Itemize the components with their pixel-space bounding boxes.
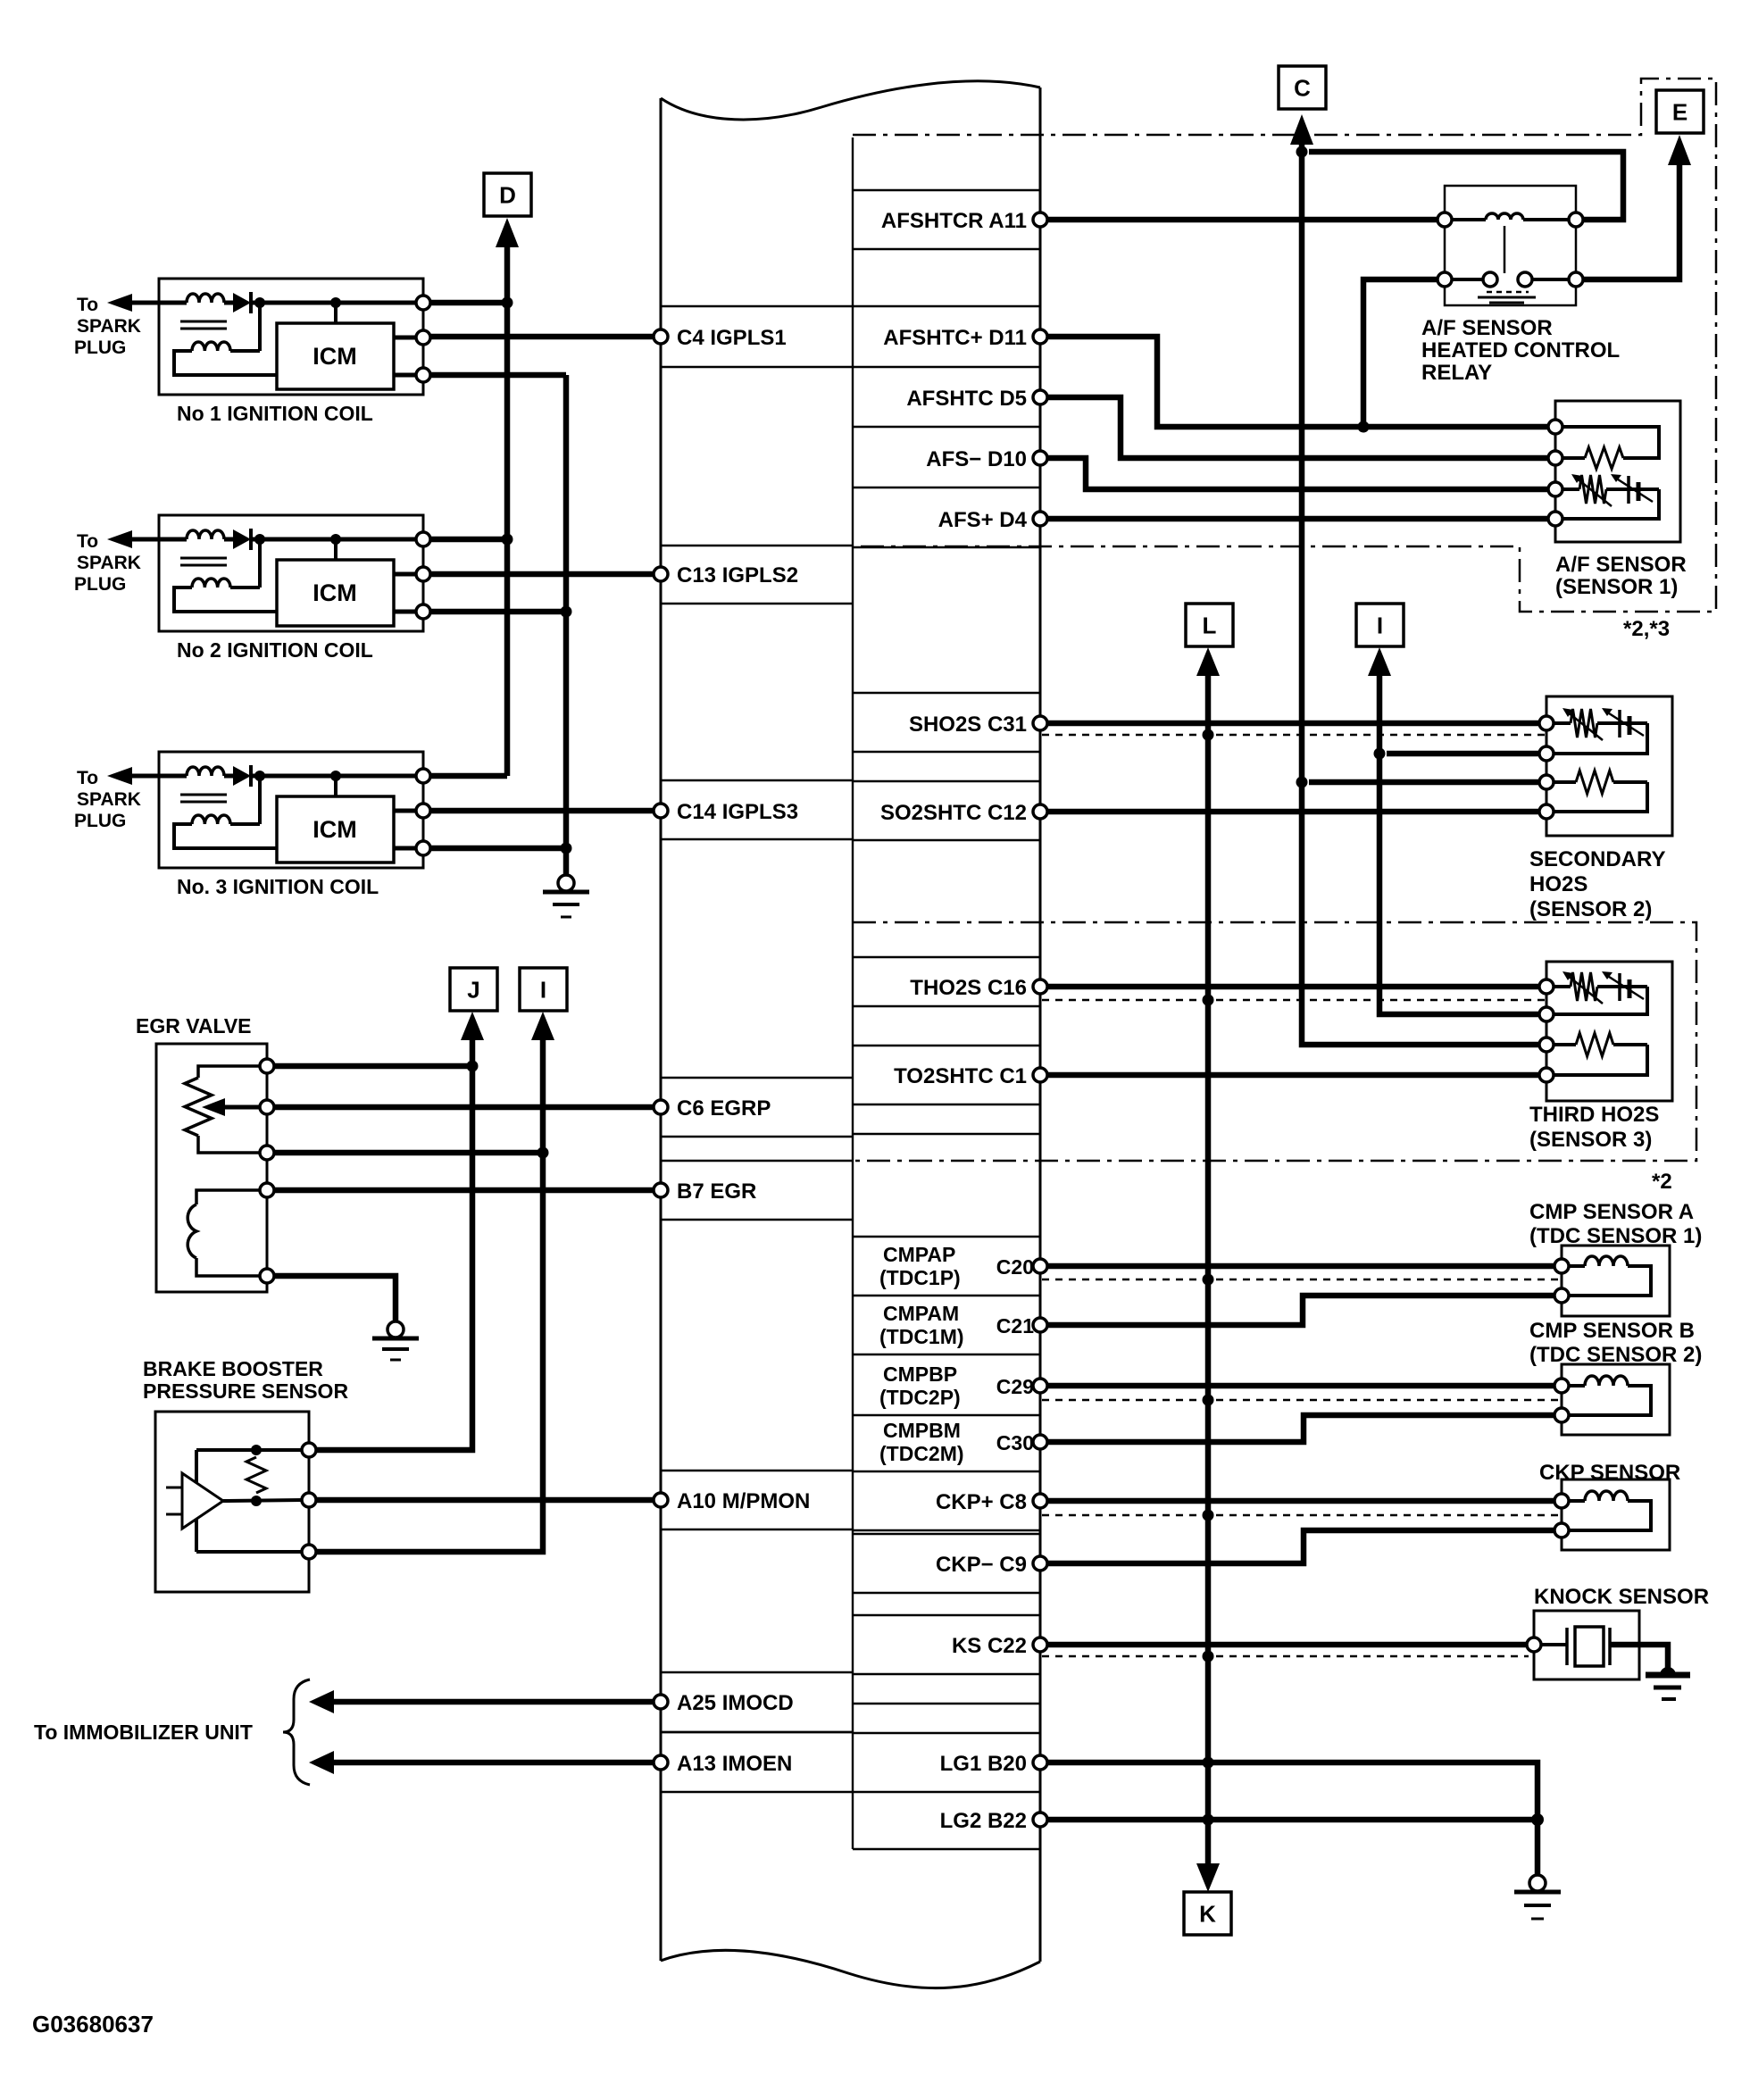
svg-text:I: I — [1377, 612, 1383, 639]
svg-text:EGR VALVE: EGR VALVE — [136, 1014, 252, 1037]
svg-text:C29: C29 — [996, 1375, 1034, 1398]
svg-text:CMP SENSOR B: CMP SENSOR B — [1529, 1319, 1695, 1343]
svg-text:CMPBP: CMPBP — [883, 1362, 957, 1386]
svg-text:KS C22: KS C22 — [952, 1634, 1027, 1658]
svg-text:G03680637: G03680637 — [32, 2011, 154, 2037]
svg-text:(TDC1M): (TDC1M) — [879, 1325, 964, 1348]
svg-text:HEATED CONTROL: HEATED CONTROL — [1421, 338, 1620, 362]
svg-text:(SENSOR 1): (SENSOR 1) — [1555, 575, 1678, 599]
svg-text:A10 M/PMON: A10 M/PMON — [677, 1489, 810, 1513]
svg-text:PLUG: PLUG — [74, 574, 126, 595]
svg-text:B7 EGR: B7 EGR — [677, 1179, 756, 1204]
svg-text:SPARK: SPARK — [77, 316, 141, 337]
svg-text:CKP+ C8: CKP+ C8 — [936, 1490, 1027, 1514]
svg-text:CMPAM: CMPAM — [883, 1302, 959, 1325]
svg-text:CKP− C9: CKP− C9 — [936, 1553, 1027, 1577]
svg-text:C: C — [1294, 75, 1311, 102]
svg-text:To IMMOBILIZER UNIT: To IMMOBILIZER UNIT — [34, 1721, 253, 1744]
svg-text:(TDC1P): (TDC1P) — [879, 1266, 961, 1289]
svg-text:*2,*3: *2,*3 — [1623, 617, 1670, 641]
svg-text:A13 IMOEN: A13 IMOEN — [677, 1752, 792, 1776]
svg-text:PLUG: PLUG — [74, 811, 126, 831]
svg-text:D: D — [499, 182, 516, 209]
svg-text:AFSHTC+ D11: AFSHTC+ D11 — [883, 326, 1027, 350]
svg-text:C4 IGPLS1: C4 IGPLS1 — [677, 326, 787, 350]
svg-text:J: J — [467, 977, 479, 1004]
svg-text:TO2SHTC C1: TO2SHTC C1 — [894, 1064, 1027, 1088]
svg-text:To: To — [77, 531, 98, 552]
svg-text:C30: C30 — [996, 1431, 1034, 1454]
svg-text:AFS− D10: AFS− D10 — [926, 447, 1027, 471]
svg-text:To: To — [77, 295, 98, 315]
svg-text:A/F SENSOR: A/F SENSOR — [1421, 316, 1553, 340]
svg-text:PLUG: PLUG — [74, 337, 126, 358]
svg-text:I: I — [540, 977, 546, 1004]
svg-text:(TDC2P): (TDC2P) — [879, 1386, 961, 1409]
svg-text:ICM: ICM — [312, 579, 357, 606]
svg-text:No. 3 IGNITION COIL: No. 3 IGNITION COIL — [177, 875, 379, 898]
svg-text:HO2S: HO2S — [1529, 872, 1587, 896]
svg-text:K: K — [1199, 1901, 1216, 1928]
svg-text:C20: C20 — [996, 1255, 1034, 1279]
svg-text:(SENSOR 2): (SENSOR 2) — [1529, 897, 1652, 921]
svg-text:PRESSURE SENSOR: PRESSURE SENSOR — [143, 1379, 348, 1403]
svg-text:AFSHTCR A11: AFSHTCR A11 — [881, 209, 1027, 233]
svg-text:L: L — [1203, 612, 1217, 639]
svg-text:CMPAP: CMPAP — [883, 1243, 955, 1266]
svg-text:(TDC2M): (TDC2M) — [879, 1442, 964, 1465]
svg-text:ICM: ICM — [312, 816, 357, 843]
svg-text:RELAY: RELAY — [1421, 361, 1492, 385]
svg-text:ICM: ICM — [312, 343, 357, 370]
svg-text:LG2 B22: LG2 B22 — [940, 1809, 1027, 1833]
svg-text:C13 IGPLS2: C13 IGPLS2 — [677, 563, 798, 587]
svg-text:C21: C21 — [996, 1314, 1034, 1337]
svg-text:LG1 B20: LG1 B20 — [940, 1752, 1027, 1776]
svg-text:*2: *2 — [1652, 1170, 1672, 1194]
svg-text:C14 IGPLS3: C14 IGPLS3 — [677, 800, 798, 824]
svg-text:BRAKE BOOSTER: BRAKE BOOSTER — [143, 1357, 323, 1380]
svg-text:C6 EGRP: C6 EGRP — [677, 1096, 771, 1121]
svg-text:No 1 IGNITION COIL: No 1 IGNITION COIL — [177, 402, 373, 425]
svg-text:THIRD HO2S: THIRD HO2S — [1529, 1103, 1659, 1127]
svg-text:SPARK: SPARK — [77, 553, 141, 573]
svg-text:CMPBM: CMPBM — [883, 1419, 961, 1442]
svg-text:(SENSOR 3): (SENSOR 3) — [1529, 1128, 1652, 1152]
svg-text:SO2SHTC C12: SO2SHTC C12 — [880, 801, 1027, 825]
svg-text:No 2 IGNITION COIL: No 2 IGNITION COIL — [177, 638, 373, 662]
svg-text:AFS+ D4: AFS+ D4 — [938, 508, 1028, 532]
svg-text:SHO2S C31: SHO2S C31 — [909, 712, 1027, 737]
svg-text:A/F SENSOR: A/F SENSOR — [1555, 553, 1687, 577]
svg-text:SECONDARY: SECONDARY — [1529, 847, 1665, 871]
svg-text:SPARK: SPARK — [77, 789, 141, 810]
svg-text:E: E — [1672, 99, 1687, 126]
svg-text:KNOCK SENSOR: KNOCK SENSOR — [1534, 1585, 1709, 1609]
svg-text:To: To — [77, 768, 98, 788]
svg-text:A25 IMOCD: A25 IMOCD — [677, 1691, 794, 1715]
svg-text:AFSHTC D5: AFSHTC D5 — [906, 387, 1027, 411]
svg-text:CMP SENSOR A: CMP SENSOR A — [1529, 1200, 1694, 1224]
svg-text:THO2S C16: THO2S C16 — [910, 976, 1027, 1000]
